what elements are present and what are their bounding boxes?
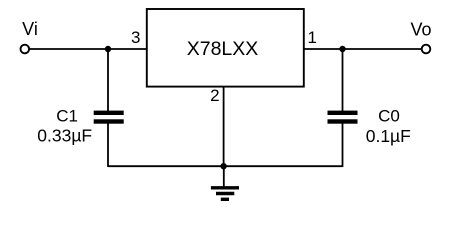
capacitor C1 plates	[94, 111, 124, 124]
op-amp U1 regulator body X78LXX	[147, 9, 304, 87]
wire: regulator pin 2 down to ground node	[223, 86, 225, 166]
svg-text:1: 1	[307, 28, 316, 47]
svg-text:Vo: Vo	[410, 20, 431, 40]
wire: Vi terminal to regulator pin 3	[29, 48, 147, 50]
junction: input node	[105, 46, 111, 52]
junction: output node	[339, 46, 345, 52]
wire: ground rail	[108, 165, 343, 167]
wire: ground node to ground symbol	[223, 166, 225, 187]
wire: input node down to C1	[107, 49, 109, 112]
svg-text:C0: C0	[378, 107, 400, 126]
wire: output node down to C0	[342, 49, 344, 112]
svg-text:0.1µF: 0.1µF	[366, 126, 411, 146]
svg-text:C1: C1	[56, 107, 78, 126]
svg-text:Vi: Vi	[22, 19, 38, 39]
svg-text:0.33µF: 0.33µF	[37, 126, 92, 146]
terminal Vo (output)	[422, 45, 431, 54]
junction: ground node	[220, 163, 226, 169]
wire: C1 bottom to ground rail	[107, 123, 109, 168]
ground symbol	[211, 188, 239, 200]
svg-text:3: 3	[131, 28, 140, 47]
capacitor C0 plates	[328, 111, 358, 124]
svg-text:X78LXX: X78LXX	[187, 38, 259, 60]
wire: C0 bottom to ground rail	[342, 123, 344, 168]
terminal Vi (input)	[21, 45, 30, 54]
svg-text:2: 2	[210, 86, 219, 105]
wire: regulator pin 1 to Vo terminal	[304, 48, 422, 50]
